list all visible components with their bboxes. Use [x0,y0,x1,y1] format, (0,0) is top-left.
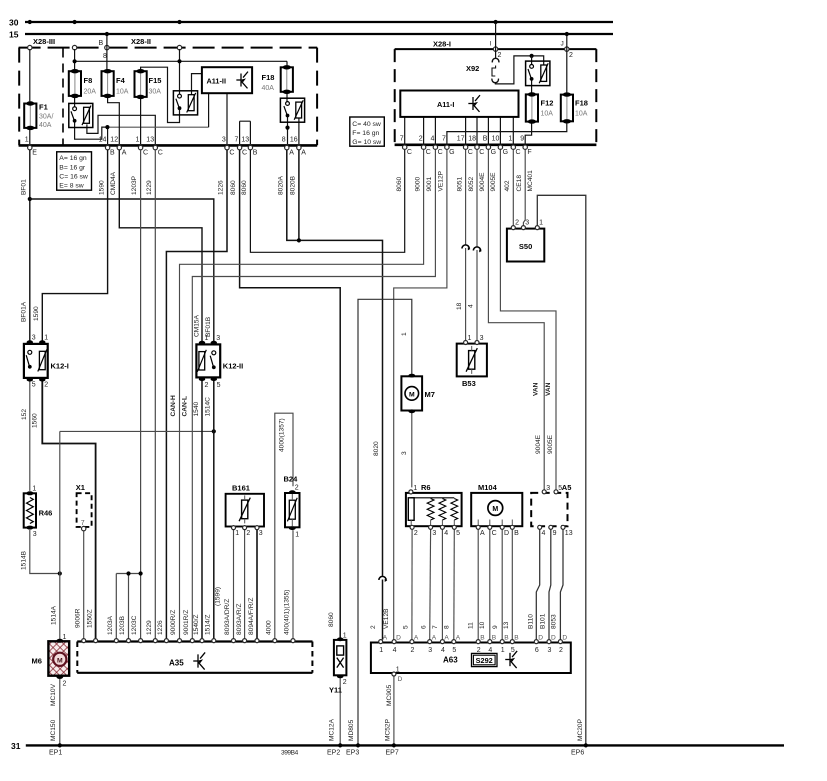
svg-text:14: 14 [99,137,107,144]
svg-text:3: 3 [216,335,220,342]
svg-text:1: 1 [32,486,36,493]
svg-text:CAN-L: CAN-L [181,396,188,417]
svg-text:4: 4 [488,647,492,654]
svg-text:VE12B: VE12B [383,608,390,629]
svg-text:10A: 10A [116,89,129,96]
svg-text:8060: 8060 [230,180,237,195]
svg-text:C: C [407,149,412,156]
svg-text:M: M [57,657,63,664]
svg-text:13: 13 [146,137,154,144]
svg-text:1: 1 [135,137,139,144]
svg-text:6: 6 [420,625,427,629]
svg-text:2: 2 [498,52,502,59]
svg-text:9004E: 9004E [479,172,486,192]
svg-text:8060: 8060 [396,176,403,191]
svg-text:C: C [229,150,234,157]
svg-text:1: 1 [379,647,383,654]
svg-text:M104: M104 [478,483,498,492]
svg-text:2: 2 [370,625,377,629]
svg-text:30A/: 30A/ [39,114,53,121]
svg-text:B= 16 gr: B= 16 gr [59,164,86,171]
svg-text:A: A [414,635,419,642]
svg-text:F1: F1 [39,103,48,112]
svg-text:CE18: CE18 [516,175,523,192]
svg-text:2: 2 [515,219,519,226]
svg-text:7: 7 [432,625,439,629]
svg-text:F= 16 gn: F= 16 gn [352,130,379,137]
svg-text:EP6: EP6 [571,750,584,757]
svg-text:13: 13 [503,621,510,629]
svg-text:S292: S292 [476,656,493,665]
svg-text:C: C [479,149,484,156]
svg-text:3: 3 [525,219,529,226]
svg-text:A11-I: A11-I [437,100,454,109]
svg-text:C= 40 sw: C= 40 sw [352,121,381,128]
svg-text:1203A: 1203A [107,615,114,635]
svg-text:17: 17 [457,136,465,143]
svg-text:8060: 8060 [328,612,335,627]
svg-text:A5: A5 [562,483,572,492]
svg-text:B: B [483,136,488,143]
svg-text:CAN-H: CAN-H [170,395,177,416]
svg-text:8060: 8060 [241,180,248,195]
svg-text:C: C [438,149,443,156]
svg-text:VAN: VAN [533,382,540,396]
svg-text:10: 10 [492,136,500,143]
svg-text:M: M [409,391,415,398]
svg-text:10A: 10A [575,111,588,118]
svg-text:(1599): (1599) [215,587,222,606]
svg-text:3: 3 [222,137,226,144]
svg-text:8020A: 8020A [277,175,284,195]
svg-text:Y11: Y11 [329,686,342,695]
svg-text:B24: B24 [284,474,299,483]
svg-text:7: 7 [81,520,85,527]
svg-text:5: 5 [217,382,221,389]
svg-text:9000R/Z: 9000R/Z [170,610,177,635]
svg-text:MC150: MC150 [50,719,57,741]
svg-text:1: 1 [539,219,543,226]
svg-text:3: 3 [546,485,550,492]
svg-text:F4: F4 [116,76,126,85]
svg-text:F: F [527,149,531,156]
svg-text:A: A [444,635,449,642]
svg-text:1203B: 1203B [119,615,126,635]
svg-text:C: C [158,150,163,157]
svg-text:9001: 9001 [426,176,433,191]
svg-text:1229: 1229 [146,180,153,195]
svg-text:8052: 8052 [468,176,475,191]
svg-text:K12-II: K12-II [223,362,243,371]
svg-text:EP1: EP1 [49,750,62,757]
svg-text:8053: 8053 [551,614,558,629]
svg-text:40A: 40A [39,122,52,129]
svg-text:4: 4 [542,530,546,537]
svg-text:2: 2 [63,681,67,688]
svg-text:X28-III: X28-III [33,37,55,46]
svg-text:4000(1357): 4000(1357) [278,418,285,452]
svg-text:3: 3 [428,647,432,654]
svg-text:I: I [490,41,492,48]
svg-text:16: 16 [290,137,298,144]
svg-text:B53: B53 [462,379,476,388]
svg-text:8020B: 8020B [290,175,297,195]
svg-text:15: 15 [9,30,19,40]
svg-text:C= 16 sw: C= 16 sw [59,173,88,180]
svg-text:1: 1 [468,335,472,342]
svg-text:C: C [468,149,473,156]
svg-text:F18: F18 [262,73,275,82]
svg-text:2: 2 [477,647,481,654]
svg-text:A35: A35 [169,658,184,667]
svg-text:VAN: VAN [545,382,552,396]
svg-text:3: 3 [401,451,408,455]
svg-text:MC52P: MC52P [385,718,392,741]
svg-text:BF01A: BF01A [21,301,28,322]
svg-text:5: 5 [32,382,36,389]
svg-text:EP7: EP7 [386,750,399,757]
svg-text:1550Z: 1550Z [86,609,93,628]
svg-text:6: 6 [535,647,539,654]
svg-text:1226: 1226 [157,620,164,635]
svg-text:B101: B101 [539,613,546,629]
svg-text:5: 5 [403,625,410,629]
svg-text:X28-I: X28-I [433,40,451,49]
svg-text:F8: F8 [84,76,93,85]
svg-text:B: B [480,635,485,642]
svg-text:13: 13 [241,137,249,144]
svg-text:B: B [253,150,258,157]
svg-text:9: 9 [553,530,557,537]
svg-text:4: 4 [444,530,448,537]
svg-text:1: 1 [413,485,417,492]
svg-text:B161: B161 [232,483,250,492]
svg-text:MC10V: MC10V [50,683,57,706]
svg-text:5: 5 [511,647,515,654]
svg-text:K12-I: K12-I [51,362,69,371]
svg-text:8093A/DR/Z: 8093A/DR/Z [224,599,231,635]
svg-text:R46: R46 [39,509,53,518]
svg-text:1: 1 [235,530,239,537]
svg-text:G= 10 sw: G= 10 sw [352,139,381,146]
svg-text:1560: 1560 [32,413,39,428]
svg-text:8020: 8020 [373,441,380,456]
svg-text:8093A/R/Z: 8093A/R/Z [236,603,243,635]
svg-text:1: 1 [396,667,400,674]
svg-text:B: B [504,635,509,642]
svg-text:9001R/Z: 9001R/Z [183,610,190,635]
svg-text:3: 3 [33,531,37,538]
svg-text:B110: B110 [528,614,535,629]
svg-text:VE12P: VE12P [438,170,445,191]
svg-text:2: 2 [419,136,423,143]
svg-text:C: C [426,149,431,156]
svg-text:8: 8 [444,625,451,629]
svg-text:1540: 1540 [193,401,200,416]
svg-text:D: D [396,635,401,642]
svg-text:10: 10 [479,621,486,629]
svg-text:1: 1 [343,633,347,640]
svg-text:A: A [383,635,388,642]
svg-text:1229: 1229 [146,620,153,635]
svg-text:4: 4 [430,136,434,143]
svg-text:A= 16 gn: A= 16 gn [59,155,87,162]
svg-text:30: 30 [9,18,19,28]
svg-text:20A: 20A [84,89,97,96]
svg-text:A: A [432,635,437,642]
svg-text:1514B: 1514B [21,550,28,570]
svg-text:E= 8 sw: E= 8 sw [59,183,83,190]
svg-text:F18: F18 [575,99,588,108]
svg-text:400(401)(1355): 400(401)(1355) [284,590,291,635]
svg-text:2: 2 [559,647,563,654]
svg-text:B: B [99,40,104,47]
svg-text:9: 9 [520,136,524,143]
svg-text:1514/Z: 1514/Z [205,614,212,635]
svg-text:M: M [492,506,498,513]
svg-text:31: 31 [11,741,21,751]
svg-text:1: 1 [501,647,505,654]
svg-text:G: G [449,149,454,156]
svg-text:CMD4A: CMD4A [110,171,117,195]
svg-text:5: 5 [452,647,456,654]
svg-text:3: 3 [32,335,36,342]
svg-text:MD805: MD805 [348,719,355,741]
svg-text:10A: 10A [541,111,554,118]
svg-text:3: 3 [432,530,436,537]
svg-text:B: B [514,530,519,537]
svg-text:7: 7 [234,137,238,144]
svg-text:X28-II: X28-II [131,37,151,46]
svg-text:40A: 40A [262,85,275,92]
svg-text:1203P: 1203P [131,175,138,195]
svg-text:13: 13 [565,530,573,537]
svg-text:A: A [456,635,461,642]
svg-text:2: 2 [410,647,414,654]
svg-text:4: 4 [393,647,397,654]
svg-text:C: C [492,530,497,537]
svg-text:12: 12 [110,137,118,144]
svg-text:9005E: 9005E [547,434,554,454]
svg-text:EP3: EP3 [346,750,359,757]
svg-text:EP2: EP2 [327,750,340,757]
svg-text:402: 402 [504,180,511,191]
svg-text:4000: 4000 [266,620,273,635]
svg-text:B: B [514,635,519,642]
svg-text:2: 2 [205,382,209,389]
svg-text:F12: F12 [541,99,554,108]
svg-text:9000: 9000 [415,176,422,191]
svg-text:M6: M6 [32,656,42,665]
svg-text:1540/Z: 1540/Z [193,614,200,635]
svg-text:1514A: 1514A [51,605,58,625]
svg-text:A11-II: A11-II [207,76,226,85]
svg-text:J: J [561,41,564,48]
svg-text:18: 18 [456,302,463,310]
svg-text:G: G [491,149,496,156]
svg-text:D: D [551,635,556,642]
svg-text:G: G [503,149,508,156]
svg-text:MC12A: MC12A [329,718,336,741]
svg-text:8094A/F/R/Z: 8094A/F/R/Z [248,598,255,635]
svg-text:B: B [492,635,497,642]
svg-text:B: B [110,150,115,157]
svg-text:BF01: BF01 [21,179,28,195]
svg-text:11: 11 [467,622,474,629]
svg-text:BF01B: BF01B [205,316,212,337]
svg-text:9005E: 9005E [490,172,497,192]
svg-text:1590: 1590 [33,306,40,321]
svg-text:1: 1 [508,136,512,143]
svg-text:C: C [143,150,148,157]
svg-text:A: A [289,150,294,157]
svg-text:1203C: 1203C [131,615,138,635]
svg-text:2: 2 [569,52,573,59]
svg-text:A: A [122,150,127,157]
svg-text:9: 9 [492,625,499,629]
svg-text:A: A [480,530,485,537]
svg-text:399B4: 399B4 [281,750,299,757]
svg-text:4: 4 [441,647,445,654]
svg-text:MC905: MC905 [386,684,393,706]
svg-text:4: 4 [467,304,474,308]
svg-text:2: 2 [414,530,418,537]
svg-text:C: C [242,150,247,157]
svg-text:S50: S50 [519,242,532,251]
svg-text:5: 5 [456,530,460,537]
svg-text:9006R: 9006R [74,608,81,628]
svg-text:7: 7 [442,136,446,143]
svg-text:1514C: 1514C [205,397,212,417]
svg-text:A63: A63 [443,655,458,664]
svg-text:1: 1 [25,137,29,144]
svg-text:30A: 30A [149,89,162,96]
svg-text:D: D [398,676,403,683]
svg-text:2: 2 [295,485,299,492]
svg-text:1: 1 [44,335,48,342]
svg-text:3: 3 [259,530,263,537]
svg-text:M7: M7 [425,390,435,399]
svg-text:8051: 8051 [456,176,463,191]
svg-text:3: 3 [548,647,552,654]
svg-text:3: 3 [480,335,484,342]
svg-text:152: 152 [21,409,28,420]
svg-text:D: D [538,635,543,642]
svg-text:MC401: MC401 [527,170,534,192]
svg-text:F15: F15 [149,76,162,85]
svg-text:D: D [504,530,509,537]
svg-text:E: E [32,150,37,157]
svg-text:1226: 1226 [218,180,225,195]
svg-text:2: 2 [44,382,48,389]
svg-text:7: 7 [400,136,404,143]
svg-text:D: D [562,635,567,642]
svg-text:1: 1 [63,634,67,641]
svg-text:2: 2 [246,530,250,537]
svg-text:8: 8 [282,137,286,144]
svg-text:A: A [301,150,306,157]
svg-text:X1: X1 [76,483,85,492]
svg-text:1: 1 [401,332,408,336]
svg-text:CM15A: CM15A [193,314,200,337]
svg-text:1590: 1590 [98,180,105,195]
svg-text:X92: X92 [466,64,479,73]
svg-text:R6: R6 [421,483,431,492]
svg-text:18: 18 [468,136,476,143]
svg-text:1: 1 [295,532,299,539]
svg-text:C: C [516,149,521,156]
svg-text:2: 2 [343,679,347,686]
svg-text:MC20P: MC20P [577,718,584,741]
svg-text:9004E: 9004E [535,434,542,454]
